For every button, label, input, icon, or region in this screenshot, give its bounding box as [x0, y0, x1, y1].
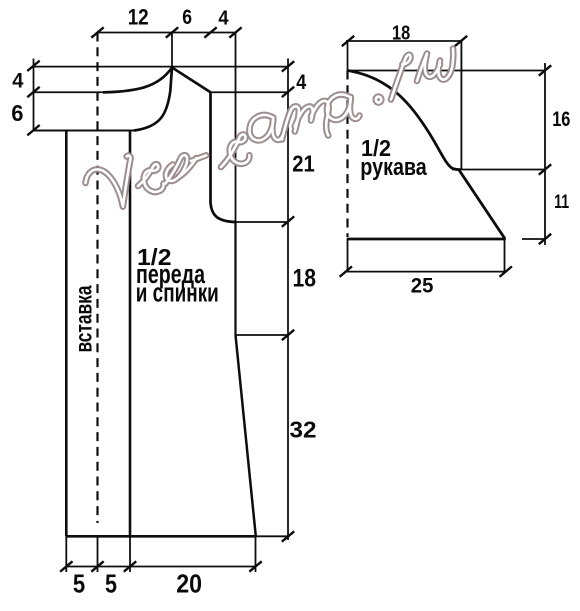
tick sleeve right dim 2 [539, 164, 551, 174]
tick sleeve top dim left [342, 36, 354, 46]
watermark stroke m1 white core [282, 101, 329, 140]
sleeve ext vertical left top [347, 41, 349, 71]
watermark stroke a1 white core [249, 115, 282, 140]
extension line y92 left part [34, 91, 109, 93]
extension vertical x172 [171, 33, 173, 68]
svg-text:5: 5 [105, 570, 117, 598]
watermark stroke dot white core [376, 97, 382, 103]
extension line waist y335 [236, 334, 289, 336]
sleeve ext line hem right [522, 238, 546, 240]
watermark stroke u1 gray [417, 49, 453, 82]
insert inner edge x130 [129, 131, 132, 537]
sleeve bottom extension left [347, 239, 349, 272]
svg-text:5: 5 [73, 570, 85, 598]
watermark stroke a2 white core [327, 95, 360, 120]
tick top dim 6/4 [204, 27, 216, 37]
sleeve ext line underarm y169 [452, 169, 545, 171]
sleeve top dimension line [346, 40, 462, 42]
sleeve bottom extension right [504, 239, 506, 272]
watermark stroke m1 gray [282, 101, 329, 140]
sleeve ext line top y70 [348, 70, 546, 72]
tick right dim 2 [282, 87, 294, 97]
tick sleeve right dim 1 [539, 65, 551, 75]
watermark stroke hy gray [191, 155, 206, 161]
tick bottom dim 2 [91, 561, 103, 571]
svg-text:32: 32 [290, 416, 317, 442]
svg-text:рукава: рукава [360, 154, 427, 181]
back neck curve [103, 68, 172, 93]
sleeve dashed centre line [346, 71, 348, 238]
tick sleeve top dim right [455, 36, 467, 46]
sleeve hem line [347, 238, 506, 241]
svg-text:вставка: вставка [70, 285, 96, 352]
tick left dim 3 [27, 125, 39, 135]
svg-text:25: 25 [411, 273, 434, 297]
watermark stroke V1 gray [86, 169, 123, 206]
svg-text:4: 4 [12, 69, 23, 93]
body left edge [65, 131, 68, 537]
svg-text:21: 21 [292, 151, 315, 177]
tick sleeve bottom dim right [500, 266, 512, 276]
tick right dim 1 [282, 61, 294, 71]
sleeve bottom dimension line [346, 271, 507, 273]
watermark stroke s1 white core [138, 164, 164, 192]
watermark stroke dot gray [376, 97, 382, 103]
armhole edge [211, 92, 236, 222]
svg-text:20: 20 [176, 570, 202, 598]
top dimension line body [98, 32, 237, 34]
watermark stroke a1 gray [249, 115, 282, 140]
watermark stroke e1 gray [166, 155, 188, 183]
bottom dimension line body [66, 566, 255, 568]
svg-text:4: 4 [296, 70, 306, 94]
tick top dim left [91, 27, 103, 37]
sleeve underarm seam diagonal [459, 169, 505, 239]
yoke top line y130 [34, 130, 135, 132]
side seam skirt slant [236, 335, 256, 536]
watermark stroke V2 white core [123, 156, 131, 207]
watermark stroke e2 gray [180, 158, 197, 177]
right dimension line body [287, 59, 289, 541]
tick right dim 3 [282, 216, 294, 226]
tick left dim 1 [27, 61, 39, 71]
tick right dim 5 [282, 531, 294, 541]
sleeve ext vertical x461 [460, 41, 462, 170]
watermark stroke a2 gray [327, 95, 360, 120]
sleeve cap curve [348, 71, 461, 170]
svg-text:6: 6 [11, 100, 23, 126]
bottom extension x97 [97, 536, 99, 572]
svg-text:12: 12 [128, 4, 149, 29]
bottom extension x255 [255, 536, 257, 572]
extension line hem y536 [256, 535, 290, 537]
tick right dim 4 [282, 330, 294, 340]
svg-text:18: 18 [392, 21, 410, 44]
watermark stroke r1 gray [391, 55, 411, 100]
tick sleeve right dim 3 [539, 234, 551, 244]
svg-text:16: 16 [552, 108, 570, 131]
tick bottom dim 4 [249, 561, 261, 571]
svg-text:11: 11 [554, 191, 569, 213]
tick sleeve bottom dim left [340, 266, 352, 276]
watermark stroke e2 white core [180, 158, 197, 177]
tick top dim 12/6 [166, 27, 178, 37]
shoulder seam [172, 68, 211, 93]
tick bottom dim 1 [60, 561, 72, 571]
watermark stroke V1 white core [86, 169, 123, 206]
bottom extension x130 [129, 536, 131, 572]
watermark stroke u1 white core [417, 49, 453, 82]
bottom extension x66 [65, 536, 67, 572]
watermark stroke e1 white core [166, 155, 188, 183]
extension line neck top y66 [34, 66, 289, 68]
extension vertical x235 upper [235, 33, 237, 223]
watermark stroke hy white core [191, 155, 206, 161]
watermark stroke s2 white core [221, 134, 249, 167]
watermark Vse-sama.ru [86, 49, 454, 207]
svg-text:18: 18 [293, 265, 317, 293]
tick left dim 2 [27, 87, 39, 97]
body hem line [66, 535, 256, 538]
left dimension line [33, 59, 35, 132]
watermark stroke s1 gray [138, 164, 164, 192]
sleeve right dimension line [544, 63, 546, 245]
watermark stroke s2 gray [221, 134, 249, 167]
svg-text:4: 4 [218, 7, 229, 29]
dashed line vstavka centre [96, 33, 98, 524]
tick bottom dim 3 [124, 561, 136, 571]
side seam upper [234, 222, 236, 335]
svg-text:и спинки: и спинки [136, 278, 219, 308]
tick top dim right [229, 27, 241, 37]
watermark stroke V2 gray [123, 156, 131, 207]
front neck curve [134, 68, 172, 131]
extension line armhole y222 [236, 221, 289, 223]
svg-text:6: 6 [182, 6, 192, 29]
extension line y92 right part [209, 91, 288, 93]
watermark stroke r1 white core [391, 55, 411, 100]
